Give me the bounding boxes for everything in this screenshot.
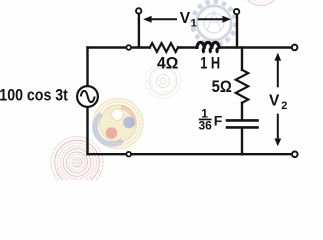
svg-text:5Ω: 5Ω <box>212 77 232 96</box>
svg-text:2: 2 <box>281 100 287 112</box>
svg-text:F: F <box>214 113 223 129</box>
svg-text:36: 36 <box>199 119 213 133</box>
svg-text:1: 1 <box>191 17 197 29</box>
svg-text:4Ω: 4Ω <box>157 54 178 73</box>
svg-text:V: V <box>180 10 191 27</box>
svg-text:V: V <box>269 93 280 110</box>
svg-text:100 cos 3t: 100 cos 3t <box>0 85 68 104</box>
svg-text:1 H: 1 H <box>200 54 220 73</box>
